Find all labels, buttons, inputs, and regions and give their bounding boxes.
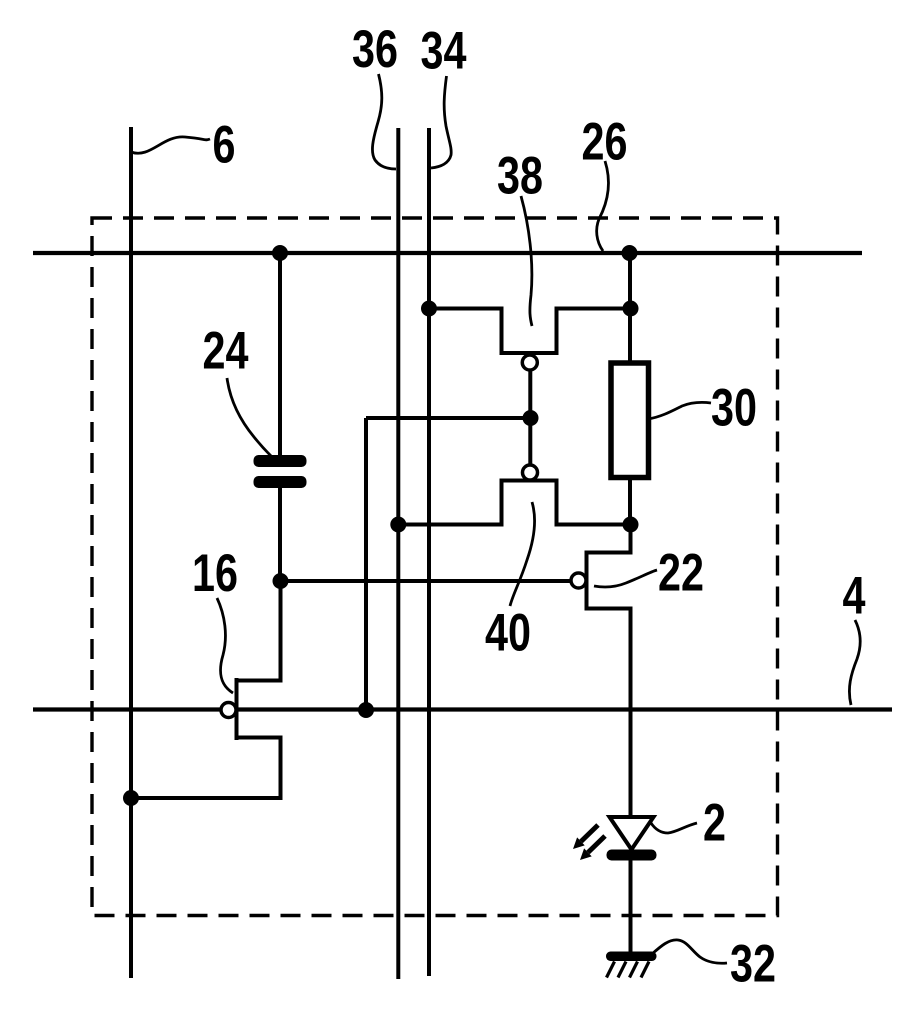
- leader to 16: [217, 598, 233, 693]
- transistor T16 channel bar: [235, 678, 239, 740]
- svg-text:24: 24: [203, 321, 249, 380]
- svg-text:2: 2: [703, 793, 726, 852]
- wire resistor bottom: [628, 478, 632, 525]
- wire aux vertical to row line: [364, 418, 368, 710]
- wire T22 drain: [587, 525, 631, 553]
- wire resistor branch top: [628, 253, 632, 363]
- wire T40 gate from node: [528, 418, 532, 466]
- transistor T22 gate bubble: [571, 573, 586, 588]
- wire transistor 16 source: [131, 738, 281, 799]
- leader to 24: [227, 378, 272, 457]
- leader to 26: [597, 161, 609, 251]
- node dot line6/T16 source: [123, 790, 139, 806]
- LED D2 triangle: [610, 817, 654, 850]
- svg-text:22: 22: [658, 543, 704, 602]
- leader to 2: [651, 823, 697, 833]
- transistor T40 channel bar: [500, 479, 559, 483]
- node dot top line/capacitor branch: [272, 245, 288, 261]
- svg-text:34: 34: [421, 21, 467, 80]
- leader to 36: [372, 74, 396, 169]
- svg-text:38: 38: [497, 146, 543, 205]
- LED light arrow 1: [573, 825, 598, 849]
- leader to 34: [431, 76, 451, 168]
- wire T38 left arm from line34: [429, 309, 502, 354]
- svg-text:6: 6: [213, 115, 236, 174]
- leader to 38: [521, 196, 532, 326]
- transistor T38 gate bubble: [522, 355, 537, 370]
- wire T22 gate to capacitor node: [281, 579, 572, 583]
- leader to 22: [594, 570, 657, 587]
- svg-text:30: 30: [711, 378, 757, 437]
- wire T40 left leg to line36: [398, 481, 501, 525]
- svg-text:16: 16: [192, 544, 238, 603]
- node dot resistor branch/T38: [623, 301, 639, 317]
- wire T38 gate down: [528, 370, 532, 418]
- LED D2 cathode bar: [607, 850, 657, 861]
- node dot resistor bottom/T40/T22: [623, 517, 639, 533]
- wire capacitor branch lower: [278, 488, 282, 581]
- leader to 6: [131, 137, 210, 153]
- LED light arrow 2: [580, 836, 605, 860]
- wire T40 right leg: [557, 481, 631, 525]
- leader to 30: [648, 402, 711, 419]
- capacitor C24 plates: [254, 455, 307, 488]
- transistor T38 channel bar: [500, 351, 559, 355]
- leader curves: [131, 74, 860, 963]
- node dot line36/T40: [390, 517, 406, 533]
- node dot aux/row line: [358, 702, 374, 718]
- leader to 4: [849, 620, 860, 705]
- wire capacitor branch upper: [278, 253, 282, 457]
- resistor R30 body: [611, 363, 649, 478]
- node dot row line/resistor branch: [622, 245, 638, 261]
- transistor T22 channel bar: [585, 551, 589, 611]
- wire transistor 16 drain: [237, 581, 281, 681]
- transistor T16 gate bubble: [221, 703, 236, 718]
- ground 32 bar: [606, 952, 657, 962]
- node dot gate column: [523, 410, 539, 426]
- svg-text:4: 4: [843, 566, 866, 625]
- svg-text:32: 32: [730, 934, 776, 993]
- wire row line 4: [33, 707, 892, 711]
- wire supply line 36: [396, 128, 400, 979]
- leader to 40: [510, 502, 534, 606]
- wire supply line 34: [427, 128, 431, 976]
- svg-text:40: 40: [485, 603, 531, 662]
- svg-text:26: 26: [582, 112, 628, 171]
- wire row line top: [33, 251, 862, 255]
- wire storage node horizontal: [366, 416, 531, 420]
- ground 32 hatches: [607, 962, 650, 978]
- wire T38 right arm: [557, 309, 631, 354]
- transistor T40 gate bubble: [523, 465, 538, 480]
- leader to 32: [652, 940, 727, 963]
- node dot line34/T38: [421, 301, 437, 317]
- node dot capacitor/gate wire: [273, 573, 289, 589]
- wire LED to ground: [629, 860, 633, 952]
- svg-text:36: 36: [352, 20, 398, 79]
- pixel boundary dashed box 26/4 region: [92, 218, 778, 916]
- wire T22 source: [587, 609, 631, 820]
- wire column line 6: [129, 127, 133, 978]
